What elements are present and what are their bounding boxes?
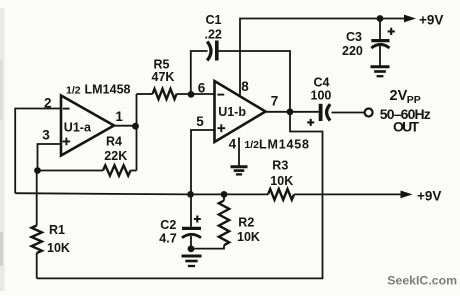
svg-text:22K: 22K (104, 149, 127, 163)
svg-text:5: 5 (196, 114, 204, 129)
svg-text:R1: R1 (49, 223, 65, 237)
svg-text:1/2: 1/2 (244, 139, 259, 151)
svg-text:47K: 47K (152, 70, 175, 84)
svg-text:+9V: +9V (417, 188, 441, 203)
svg-text:U1-a: U1-a (64, 120, 92, 134)
svg-text:+9V: +9V (419, 13, 443, 28)
svg-text:C4: C4 (314, 75, 330, 89)
svg-text:LM1458: LM1458 (85, 83, 131, 97)
svg-text:4: 4 (229, 137, 237, 152)
svg-text:PP: PP (407, 94, 421, 106)
svg-text:4.7: 4.7 (159, 231, 176, 245)
svg-text:.22: .22 (205, 27, 222, 41)
svg-text:SeekIC.com: SeekIC.com (387, 274, 457, 288)
svg-text:R4: R4 (106, 134, 122, 148)
svg-text:C2: C2 (160, 218, 176, 232)
svg-text:220: 220 (342, 44, 363, 58)
svg-text:2: 2 (44, 95, 52, 110)
svg-text:C1: C1 (206, 13, 222, 27)
svg-text:7: 7 (271, 94, 279, 109)
svg-text:100: 100 (311, 88, 332, 102)
svg-text:10K: 10K (237, 230, 260, 244)
svg-text:U1-b: U1-b (218, 105, 246, 119)
svg-text:OUT: OUT (393, 119, 419, 135)
svg-text:C3: C3 (346, 30, 362, 44)
svg-text:6: 6 (198, 81, 206, 96)
svg-text:1: 1 (115, 109, 123, 124)
svg-text:LM1458: LM1458 (259, 138, 309, 152)
svg-text:R2: R2 (238, 215, 254, 229)
svg-text:10K: 10K (270, 174, 293, 188)
svg-text:10K: 10K (47, 241, 70, 255)
svg-text:1/2: 1/2 (66, 84, 81, 96)
svg-text:2V: 2V (390, 88, 408, 104)
svg-text:R3: R3 (272, 158, 288, 172)
svg-text:8: 8 (241, 79, 249, 94)
svg-text:3: 3 (42, 128, 50, 143)
